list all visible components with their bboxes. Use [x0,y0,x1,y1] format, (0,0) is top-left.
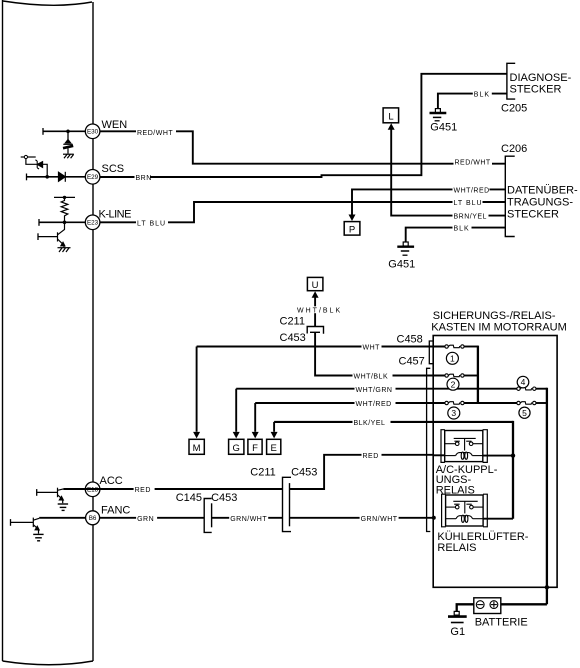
wire WHT/RED row to F and fuse box [255,403,516,432]
circled number 3 [448,407,460,419]
svg-text:U: U [312,280,319,291]
wire fuse4 output to battery bus [536,388,547,390]
wire GRN from B6 through C145/C453 [100,517,434,519]
svg-text:G1: G1 [450,626,465,638]
fuse 1 (WHT row) [445,345,464,348]
terminal E29 [85,170,100,185]
circled number 4 [517,376,529,388]
wire BLK from C206 to ground [406,228,506,242]
label RED (row right) [362,451,382,460]
svg-text:BRN/YEL: BRN/YEL [454,214,487,221]
connector C211/C453 in-line (vertical wire) [307,327,323,334]
label BRN [135,172,152,182]
connector box M with arrow [189,432,204,454]
node junction on K-LINE wire [63,221,67,225]
label RED/WHT (left) [136,127,176,137]
connector C145/C453 in-line (GRN wire) [204,499,212,533]
wire fuse5 output to battery bus [536,402,547,404]
ground below FANC transistor [33,534,43,540]
label GRN [136,514,157,523]
svg-text:STECKER: STECKER [510,84,562,96]
battery BATTERIE [474,598,501,614]
diode D (SCS line) [59,172,66,182]
svg-text:L: L [388,112,393,123]
svg-text:ACC: ACC [100,475,123,487]
resistor (pull-up on K-LINE) [54,197,75,222]
label RED (left) [134,485,155,494]
node dot at box bottom crossing [545,585,549,589]
svg-text:C145: C145 [176,492,202,504]
ground G1 [448,611,467,637]
svg-text:LT BLU: LT BLU [454,200,483,207]
svg-text:BLK: BLK [474,92,490,99]
wire WHT row to M and fuse box [197,347,445,432]
connector box U with arrow [307,277,323,297]
svg-text:C206: C206 [501,143,527,155]
svg-text:LT BLU: LT BLU [137,220,166,227]
svg-text:E18: E18 [87,487,99,494]
wire fan coil to relay bus corner [483,518,513,520]
connector C211/C453 in-line (RED + GRN/WHT wires) [283,477,292,531]
label SICHERUNGS-/RELAIS-KASTEN IM MOTORRAUM [431,310,566,334]
svg-text:WHT/BLK: WHT/BLK [354,374,389,381]
fuse/relay box (SICHERUNGS-/RELAIS-KASTEN) [433,336,557,588]
svg-text:KASTEN IM MOTORRAUM: KASTEN IM MOTORRAUM [431,322,566,334]
label BRN/YEL (at C206) [453,211,489,221]
ground G451 (C206 BLK) [388,242,415,270]
A/C relay outer box [445,431,483,462]
wire RED from E18 through C211/C453 to box [100,455,433,489]
ECU band left edge [3,0,94,665]
node dot on resistor top bar [63,196,66,199]
svg-text:5: 5 [522,408,527,418]
label KUEHLERLUEFTER-RELAIS [437,531,528,554]
wire fuse1 output to bus [464,346,478,348]
svg-text:F: F [252,443,258,454]
svg-text:C453: C453 [291,466,317,478]
wire fuse2 output to bus [464,375,478,377]
fan relay bracket left [442,494,446,527]
terminal E30 [85,124,100,139]
node junction on WEN wire [66,130,70,134]
svg-text:GRN/WHT: GRN/WHT [361,516,398,523]
svg-text:E29: E29 [87,174,99,181]
svg-text:G: G [233,443,240,454]
wire WHT/GRN row to G and fuse box [236,389,516,432]
svg-text:WHT/GRN: WHT/GRN [356,387,393,394]
svg-text:M: M [193,443,201,454]
svg-text:E30: E30 [87,129,99,136]
label WHT/RED (row) [355,399,396,409]
wire zener branch [21,157,48,177]
wire K-LINE internal (E23 to stub) [39,219,86,226]
svg-text:1: 1 [450,353,455,363]
svg-text:E23: E23 [87,220,99,227]
svg-text:WHT/BLK: WHT/BLK [297,308,342,315]
svg-text:BLK/YEL: BLK/YEL [354,420,386,427]
svg-text:RED: RED [135,487,151,494]
cooling fan relay outer box [446,495,484,526]
svg-text:C205: C205 [501,103,527,115]
label A/C-KUPPLUNGS-RELAIS [436,464,498,496]
fuse 2 (WHT/BLK row) [445,374,464,377]
svg-text:BRN: BRN [136,175,152,182]
label BLK/YEL (row) [353,418,391,428]
svg-text:K-LINE: K-LINE [99,209,132,221]
ground below ACC transistor [58,504,68,510]
zener diode (branch) [35,160,42,169]
node small circle on branch [24,155,27,158]
node dot A/C coil junction [511,453,515,457]
svg-text:RED/WHT: RED/WHT [455,159,491,166]
label GRN/WHT (right) [360,514,399,523]
svg-text:E: E [271,443,277,454]
svg-text:P: P [349,224,355,235]
fan relay bracket right [483,494,487,527]
svg-text:C211: C211 [280,315,305,327]
connector C206 bracket [505,156,514,236]
capacitor (polarized, noise suppressor) [63,140,73,154]
connector box E with arrow [267,432,281,454]
svg-text:GRN: GRN [137,516,154,523]
svg-text:WHT/RED: WHT/RED [356,401,392,408]
connector C458 bracket [429,341,433,364]
bus from fuses 1-3 [477,346,479,403]
svg-text:WHT/RED: WHT/RED [454,188,490,195]
fan relay coil [446,515,484,522]
label LT BLU (left) [136,218,168,228]
ground (chassis) below capacitor [63,154,74,158]
svg-text:G451: G451 [430,121,457,133]
label RED/WHT (at C206) [454,157,493,166]
relay feed bus vertical [512,421,514,519]
label BLK (at C205) [473,89,492,98]
fuse 4 (WHT/GRN row) [517,387,536,390]
wire WHT/BLK continues to fuse box row [315,332,445,375]
label WHT/BLK (row) [353,371,393,381]
svg-text:3: 3 [451,408,456,418]
A/C relay coil [445,452,483,459]
ground (chassis) below transistor [58,246,71,252]
svg-text:DIAGNOSE-: DIAGNOSE- [510,72,572,84]
wire battery minus to G1 [457,604,474,611]
svg-text:SICHERUNGS-/RELAIS-: SICHERUNGS-/RELAIS- [433,310,556,322]
svg-text:4: 4 [521,377,526,387]
svg-text:RED/WHT: RED/WHT [137,130,173,137]
svg-text:C211: C211 [250,466,275,478]
fan relay contact [446,501,484,513]
fuse 5 (WHT/RED row right) [517,401,536,404]
terminal E23 [85,215,100,230]
label C145 C453 [176,492,238,504]
transistor Q (ACC driver) [37,488,100,504]
terminal B6 [86,511,100,525]
connector C205 bracket (DIAGNOSE-STECKER) [507,63,515,99]
wire WEN internal (E30 to stub) [43,128,86,135]
wire LT BLU from E23 to C206 [100,202,505,222]
svg-text:RELAIS: RELAIS [437,542,476,554]
svg-text:BLK: BLK [454,226,470,233]
svg-text:BATTERIE: BATTERIE [475,616,528,628]
node dot GRN/WHT at box edge [432,516,436,520]
wire RED into A/C relay coil [433,454,445,456]
svg-text:FANC: FANC [101,505,130,517]
wire A/C coil to relay bus [483,455,513,457]
label WHT (row) [362,342,382,351]
connector box L with arrow [383,108,399,130]
A/C relay bracket left [441,430,445,463]
terminal E18 [85,482,100,497]
wire BRN from E29 to diagnose connector [100,74,507,177]
label DIAGNOSE-STECKER [510,72,572,95]
svg-text:TRAGUNGS-: TRAGUNGS- [507,197,573,209]
A/C relay bracket right [483,430,488,463]
label GRN/WHT (mid) [229,514,268,523]
label BLK (at C206) [453,223,472,232]
svg-text:WHT: WHT [363,345,381,352]
svg-text:C453: C453 [280,332,306,344]
svg-text:B6: B6 [89,515,97,522]
wire WHT/RED from C206 to P [352,189,505,214]
ground G451 (C205 BLK) [430,109,458,134]
wire BLK/YEL row to E and fuse box [274,422,513,432]
node junction on SCS wire [45,175,49,179]
svg-text:2: 2 [451,379,456,389]
connector C457 bracket [427,368,431,531]
connector box P with arrow [344,215,360,236]
transistor Q (K-LINE driver) [38,222,65,246]
label DATENUEBERTRAGUNGSSTECKER [507,184,578,220]
wire BRN/YEL from C206 to L [391,130,505,216]
svg-text:STECKER: STECKER [507,209,559,221]
battery bus vertical [546,388,548,605]
label WHT/RED (at C206) [453,185,490,195]
wire SCS internal (E29 to stub) [27,174,86,181]
svg-text:RED: RED [363,453,379,460]
wire cap lead [67,131,69,142]
connector box F with arrow [248,432,262,454]
circled number 1 [446,352,458,364]
svg-text:C453: C453 [211,492,237,504]
transistor Q (FANC driver) [11,518,86,534]
svg-text:C457: C457 [399,356,425,368]
wire BLK from C205 to ground [438,94,507,109]
svg-text:WEN: WEN [102,119,128,131]
label WHT/GRN (row) [355,384,396,394]
svg-text:G451: G451 [388,258,415,270]
label LT BLU (at C206) [453,198,483,208]
connector box G with arrow [229,432,244,454]
svg-text:DATENÜBER-: DATENÜBER- [507,184,578,196]
svg-text:C458: C458 [397,333,423,345]
fuse 3 (WHT/RED row) [445,401,464,404]
svg-text:SCS: SCS [102,163,125,175]
circled number 2 [447,378,459,390]
wire battery plus to bus [501,603,547,605]
wire WHT/BLK from U to connector C211/C453 [314,298,316,327]
label C211 C453 (lower) [250,466,317,478]
circled number 5 [519,407,530,418]
wire RED/WHT from E30 to C206 [100,131,505,163]
A/C relay contact [445,438,483,450]
svg-text:GRN/WHT: GRN/WHT [230,516,267,523]
